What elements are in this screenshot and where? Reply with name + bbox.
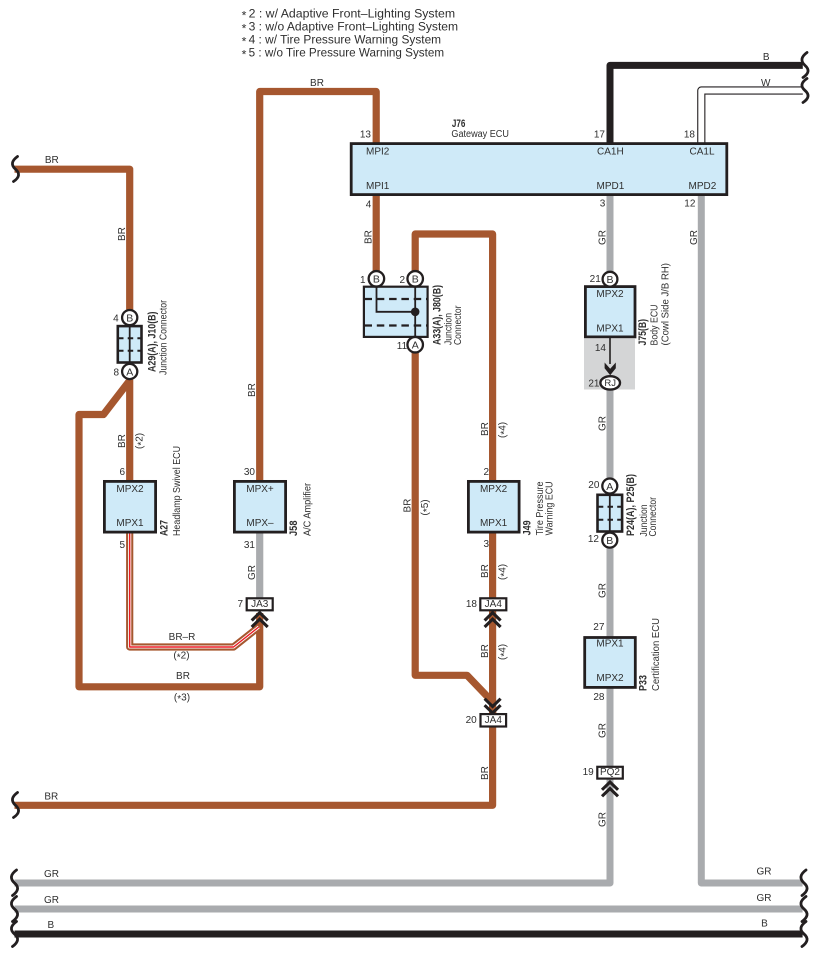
wire BR J49 pin 3 down to JA4 18: [489, 533, 496, 598]
svg-text:MPD1: MPD1: [597, 181, 625, 192]
label A33(A), J80(B) Junction Connector: [431, 285, 464, 345]
svg-text:BR: BR: [480, 422, 491, 436]
wire label BR (*5) A33 pin11 segment: [403, 499, 433, 516]
connector box JA4 20: [481, 714, 507, 726]
ECU A27 Headlamp Swivel ECU: [104, 481, 155, 532]
wire W feed to J76 pin 18: [701, 91, 804, 145]
wire BR left feed (squiggle end to A29 pin B): [15, 169, 130, 309]
squiggle break W right: [802, 79, 808, 103]
wire label BR (*2) A27 segment: [117, 433, 147, 449]
wire GR J58 pin 31 down to JA3: [256, 533, 263, 598]
wire label BR (*4) J49 pin3 segment: [480, 564, 510, 580]
svg-text:31: 31: [244, 540, 256, 551]
svg-text:A: A: [126, 366, 133, 378]
svg-text:3 : w/o Adaptive Front–Lightin: 3 : w/o Adaptive Front–Lighting System: [249, 20, 459, 34]
svg-text:BR: BR: [403, 499, 414, 513]
chevron up JA3: [252, 613, 268, 627]
wire BR J76 pin 4 down to A33 pin 1: [373, 196, 380, 271]
svg-text:*: *: [242, 22, 247, 36]
legend note lines: [242, 7, 459, 62]
svg-text:MPX1: MPX1: [596, 638, 624, 649]
wire GR P24 pin 12 down to P33 pin 27: [607, 548, 614, 638]
svg-text:RJ: RJ: [604, 378, 616, 389]
svg-text:W: W: [761, 78, 771, 89]
svg-text:5: 5: [119, 540, 125, 551]
wire B battery feed to J76 pin 17: [610, 65, 803, 143]
svg-text:Certification ECU: Certification ECU: [651, 618, 662, 691]
chevron up JA4 18: [485, 613, 501, 627]
svg-text:CA1H: CA1H: [597, 147, 624, 158]
svg-text:MPX2: MPX2: [596, 673, 624, 684]
svg-text:A33(A), J80(B): A33(A), J80(B): [431, 285, 443, 345]
wire BR-R A27 pin 5 to JA3: [130, 533, 259, 647]
squiggle break row1 left GR: [11, 870, 17, 896]
wire GR J76 pin 12 down to right feed squiggle: [701, 196, 802, 883]
junction connector P24(A) P25(B): [598, 495, 623, 532]
svg-text:(*4): (*4): [498, 564, 511, 580]
svg-text:MPI1: MPI1: [366, 181, 390, 192]
pin circle 11 A A33: [407, 337, 423, 353]
svg-text:BR: BR: [480, 644, 491, 658]
pin circle 1 B A33: [369, 271, 385, 287]
svg-text:(*4): (*4): [498, 422, 511, 438]
wire BR JA4 20 down to bottom feed squiggle: [15, 728, 493, 806]
svg-text:12: 12: [684, 199, 696, 210]
squiggle break bottom left BR: [12, 793, 18, 818]
pin circle A A29: [122, 364, 137, 379]
pin circle B A29: [122, 310, 137, 325]
wire BR (*5) A33 pin 11 down to JA4 20: [415, 352, 492, 714]
svg-text:MPX1: MPX1: [480, 518, 508, 529]
svg-text:3: 3: [600, 199, 606, 210]
svg-text:A27: A27: [159, 520, 171, 536]
svg-text:CA1L: CA1L: [690, 147, 715, 158]
svg-text:*: *: [242, 48, 247, 62]
svg-text:*: *: [242, 9, 247, 23]
svg-text:28: 28: [593, 692, 605, 703]
svg-text:B: B: [412, 274, 419, 286]
svg-text:Connector: Connector: [648, 496, 659, 536]
svg-text:BR: BR: [364, 230, 375, 244]
svg-text:B: B: [47, 920, 54, 931]
label A29(A), J10(B) Junction Connector: [147, 299, 170, 375]
wire GR bottom bus row 2: [15, 906, 803, 913]
svg-text:B: B: [763, 52, 770, 63]
svg-text:Warning ECU: Warning ECU: [545, 481, 556, 535]
svg-text:Junction Connector: Junction Connector: [158, 299, 169, 375]
pin circle B J75: [603, 272, 618, 287]
svg-text:BR: BR: [117, 434, 128, 448]
wire BR A29 pin A down to A27 pin 6: [126, 380, 133, 482]
svg-text:30: 30: [244, 467, 256, 478]
ECU P33 Certification ECU: [585, 638, 636, 688]
svg-text:A: A: [412, 340, 419, 352]
svg-text:A29(A), J10(B): A29(A), J10(B): [147, 311, 159, 372]
svg-text:Body ECU: Body ECU: [650, 305, 661, 346]
wire B bottom bus row 3: [15, 931, 803, 938]
arrow inside junction block: [605, 363, 616, 376]
ECU J58 A/C Amplifier: [234, 481, 285, 532]
svg-text:4: 4: [113, 314, 119, 325]
svg-text:12: 12: [588, 534, 600, 545]
svg-text:MPX2: MPX2: [480, 484, 508, 495]
svg-text:20: 20: [588, 480, 600, 491]
wire label BR (*4) JA4 mid segment: [480, 644, 510, 660]
svg-text:B: B: [126, 312, 133, 324]
svg-text:7: 7: [237, 599, 243, 610]
svg-text:14: 14: [595, 343, 607, 354]
svg-text:GR: GR: [598, 230, 609, 245]
svg-text:BR: BR: [45, 155, 59, 166]
svg-text:21: 21: [588, 378, 600, 389]
svg-text:MPI2: MPI2: [366, 147, 390, 158]
svg-text:Gateway ECU: Gateway ECU: [451, 129, 509, 140]
svg-text:3: 3: [484, 539, 490, 550]
wire GR J76 pin 3 down to J75 pin 21: [607, 196, 614, 272]
svg-text:JA4: JA4: [485, 599, 503, 610]
svg-text:17: 17: [594, 129, 606, 140]
wire BR JA4 18 down to JA4 20: [489, 611, 496, 714]
connector box PQ2: [597, 767, 623, 779]
wire label BR (*4) J49 top segment: [480, 422, 510, 438]
label P33 Certification ECU: [638, 618, 663, 691]
svg-text:GR: GR: [247, 565, 258, 580]
pin circle 2 B A33: [407, 271, 423, 287]
svg-text:JA3: JA3: [251, 599, 269, 610]
svg-text:GR: GR: [44, 869, 59, 880]
svg-text:GR: GR: [598, 583, 609, 598]
squiggle break B right: [802, 53, 808, 78]
label J75(B) Body ECU (Cowl Side J/B RH): [637, 263, 672, 346]
svg-text:19: 19: [583, 767, 595, 778]
svg-text:MPX1: MPX1: [116, 518, 144, 529]
junction connector A29(A) J10(B): [118, 326, 142, 362]
svg-text:*: *: [242, 35, 247, 49]
pin circle B P24: [602, 533, 617, 548]
wire label BR (*3): [174, 671, 190, 705]
svg-text:Connector: Connector: [453, 305, 464, 345]
squiggle break row3 right B: [801, 922, 807, 947]
wire label BR-R (*2): [169, 632, 196, 663]
svg-text:MPX–: MPX–: [246, 518, 274, 529]
svg-text:11: 11: [397, 341, 408, 352]
svg-text:BR: BR: [480, 564, 491, 578]
svg-text:8: 8: [113, 367, 119, 378]
ECU J76 Gateway ECU: [351, 118, 727, 195]
svg-text:BR: BR: [247, 383, 258, 397]
svg-text:1: 1: [360, 275, 366, 286]
svg-text:GR: GR: [757, 867, 772, 878]
pin circle A P24: [602, 479, 617, 494]
squiggle break row3 left B: [11, 922, 17, 947]
wire BR A33 pin 2 up over down to J49 pin 2: [415, 234, 492, 481]
svg-text:BR: BR: [310, 78, 324, 89]
svg-text:B: B: [761, 919, 768, 930]
svg-text:Headlamp Swivel ECU: Headlamp Swivel ECU: [172, 446, 183, 536]
chevron up PQ2: [602, 782, 618, 796]
wire GR PQ2 down to left feed squiggle: [15, 780, 611, 884]
svg-text:BR: BR: [480, 766, 491, 780]
svg-text:A: A: [606, 481, 613, 493]
svg-text:27: 27: [593, 622, 605, 633]
svg-text:(*4): (*4): [498, 644, 511, 660]
ECU J49 Tire Pressure Warning ECU: [468, 481, 519, 532]
wire GR P33 pin 28 down to PQ2: [607, 689, 614, 767]
svg-text:(*3): (*3): [174, 692, 190, 705]
svg-text:P24(A), P25(B): P24(A), P25(B): [625, 474, 637, 536]
svg-text:J75(B): J75(B): [637, 319, 649, 346]
svg-text:2: 2: [484, 467, 490, 478]
svg-text:13: 13: [360, 129, 372, 140]
squiggle break row1 right GR: [801, 870, 807, 896]
svg-text:(*5): (*5): [420, 499, 433, 515]
svg-text:MPX2: MPX2: [596, 289, 624, 300]
svg-text:JA4: JA4: [485, 715, 503, 726]
svg-text:A/C Amplifier: A/C Amplifier: [302, 482, 313, 536]
svg-text:J49: J49: [522, 520, 534, 535]
svg-text:GR: GR: [598, 723, 609, 738]
svg-text:6: 6: [119, 467, 125, 478]
wire GR RJ down to P24 pin 20: [607, 390, 614, 479]
svg-text:MPX+: MPX+: [246, 484, 274, 495]
svg-text:GR: GR: [689, 230, 700, 245]
connector box JA4 18: [480, 598, 506, 610]
svg-text:MPX1: MPX1: [596, 323, 624, 334]
label P24(A), P25(B) Junction Connector: [625, 474, 659, 537]
junction block shaded area J75: [584, 338, 635, 390]
wire BR top U (J58 MPX+ up over to J76 pin 13): [260, 92, 377, 482]
svg-text:PQ2: PQ2: [600, 767, 620, 778]
svg-text:21: 21: [590, 274, 602, 285]
svg-text:B: B: [373, 274, 380, 286]
junction connector A33(A) J80(B): [364, 287, 428, 337]
label A27 Headlamp Swivel ECU: [159, 446, 184, 536]
svg-text:4 : w/ Tire Pressure Warning S: 4 : w/ Tire Pressure Warning System: [249, 33, 442, 47]
svg-text:18: 18: [466, 599, 478, 610]
label J58 A/C Amplifier: [288, 482, 313, 536]
svg-text:GR: GR: [598, 416, 609, 431]
wire BR branch (*3) from A29 leg to JA3: [79, 381, 260, 687]
svg-text:J76: J76: [452, 118, 466, 130]
RJ oval terminal: [600, 376, 620, 389]
svg-text:BR: BR: [117, 227, 128, 241]
svg-text:5 : w/o Tire Pressure Warning: 5 : w/o Tire Pressure Warning System: [249, 46, 445, 60]
svg-text:18: 18: [684, 129, 696, 140]
chevron down JA4 20: [485, 699, 501, 713]
svg-text:GR: GR: [757, 893, 772, 904]
svg-text:4: 4: [366, 200, 372, 211]
svg-text:BR: BR: [176, 671, 190, 682]
svg-text:MPX2: MPX2: [116, 484, 144, 495]
squiggle break row2 right GR: [801, 897, 807, 922]
svg-text:J58: J58: [288, 521, 300, 537]
svg-text:(Cowl Side J/B RH): (Cowl Side J/B RH): [661, 263, 672, 346]
svg-text:(*2): (*2): [135, 433, 148, 449]
connector box JA3: [247, 598, 273, 610]
svg-text:2 : w/ Adaptive Front–Lighting: 2 : w/ Adaptive Front–Lighting System: [249, 7, 456, 21]
svg-text:GR: GR: [44, 895, 59, 906]
svg-text:BR: BR: [44, 792, 58, 803]
squiggle break top left BR: [12, 157, 18, 182]
svg-text:MPD2: MPD2: [689, 181, 717, 192]
svg-text:GR: GR: [598, 812, 609, 827]
label J49 Tire Pressure Warning ECU: [522, 481, 556, 535]
svg-text:2: 2: [400, 275, 406, 286]
squiggle break row2 left GR: [11, 897, 17, 922]
svg-text:(*2): (*2): [173, 651, 189, 664]
svg-text:B: B: [606, 535, 613, 547]
svg-text:20: 20: [466, 715, 478, 726]
svg-text:P33: P33: [638, 675, 650, 691]
svg-text:B: B: [606, 274, 613, 286]
ECU J75(B) Body ECU: [585, 287, 635, 337]
svg-text:BR–R: BR–R: [169, 632, 196, 643]
